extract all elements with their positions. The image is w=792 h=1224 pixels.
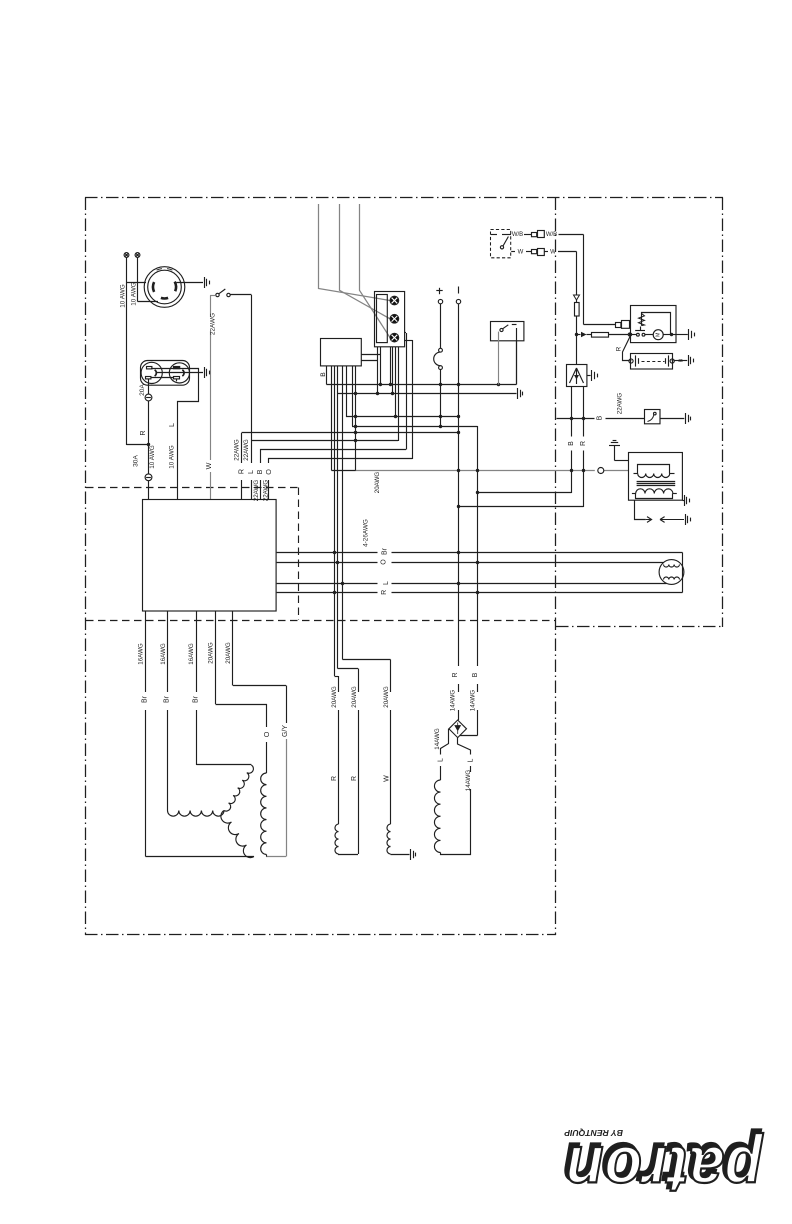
label 22AWG (relay line) [616, 393, 623, 415]
wire panel Br 1 [146, 611, 255, 857]
terminal block with 3 screw terminals [375, 292, 405, 347]
label L (bus) [383, 581, 390, 585]
circuit breaker 20A [145, 394, 152, 401]
ground (H2 end) [518, 388, 523, 399]
wire switch right down to panel L [230, 295, 251, 442]
spark plug gap arrows [646, 517, 684, 523]
engine switch box contacts [500, 325, 517, 332]
lamp winding coil [335, 824, 358, 854]
svg-text:10 AWG: 10 AWG [130, 282, 137, 306]
svg-text:M: M [656, 332, 662, 337]
wire panel G/Y lead [233, 611, 287, 857]
battery box [631, 354, 673, 370]
stator lead wire 3 (gray) [360, 204, 391, 338]
label L (left lead) [438, 758, 445, 762]
svg-text:L: L [167, 423, 176, 427]
label 10 AWG (terminal 1 wire) [120, 284, 127, 308]
label B (harness) [472, 672, 479, 677]
label R (harness) [452, 672, 459, 677]
svg-text:R: R [138, 430, 147, 435]
label W/B (left) [512, 232, 523, 238]
svg-text:22AWG: 22AWG [262, 480, 269, 502]
wire B to thermal relay [557, 417, 645, 420]
wire duplex neutral bottom slots [151, 377, 174, 379]
svg-text:16AWG: 16AWG [188, 643, 195, 665]
ground (twistlock) [205, 277, 210, 288]
label G/Y (stator lead) [282, 725, 289, 737]
wire block pin to L [398, 347, 400, 441]
wire coil HT to ground [683, 500, 685, 502]
connector (W/B wire) [532, 231, 545, 238]
battery cells symbol [629, 355, 674, 366]
svg-text:30A: 30A [133, 455, 140, 467]
svg-text:10 AWG: 10 AWG [169, 445, 176, 469]
label B (panel wire) [255, 469, 264, 474]
wire regulator pin3 down to lamp coil R return [338, 366, 359, 854]
wire from meter plug down into grid [440, 370, 442, 427]
svg-text:22AWG: 22AWG [233, 439, 240, 461]
ground (starter) [689, 329, 695, 340]
outer dash-dot enclosure borders and section divider [85, 198, 723, 936]
wire twistlock right slot to ground [177, 282, 204, 284]
svg-text:patron: patron [565, 1132, 764, 1207]
wire switch box gray lead [498, 332, 500, 385]
label R (hot wire) [138, 430, 147, 435]
duplex receptacle 20A [141, 361, 190, 386]
wire W/B from stop switch [502, 234, 531, 236]
aux winding vertical [261, 773, 267, 857]
label R (coil lead 1) [331, 776, 338, 781]
label B (regulator lead) [320, 372, 327, 377]
svg-text:20A: 20A [139, 384, 146, 396]
label 14AWG (coil return) [465, 770, 472, 792]
wire rectifier feed down [576, 335, 578, 365]
label 22AWG (switch wire) [209, 313, 216, 335]
connector (W wire) [532, 249, 545, 256]
svg-text:Br: Br [192, 695, 199, 703]
svg-text:4-26AWG: 4-26AWG [363, 519, 370, 547]
label 20AWG (W lead) [383, 686, 390, 708]
wire coil to spark gap [635, 500, 646, 519]
wire regulator pin7 down to O bus [354, 366, 357, 471]
label 10 AWG (breaker wire) [149, 445, 156, 469]
label O (panel wire) [264, 469, 273, 475]
wire diode bottom lead to DC coil return [458, 738, 471, 772]
svg-text:W/B: W/B [512, 232, 523, 238]
label 20AWG (R lead 1) [331, 686, 338, 708]
svg-text:20AWG: 20AWG [331, 686, 338, 708]
wire duplex hot loop [151, 369, 199, 500]
wire regulator pin5 to H3 [346, 366, 348, 417]
svg-text:Br: Br [382, 547, 389, 555]
bus junction dots [333, 551, 479, 594]
starter internal loop [642, 313, 671, 335]
ground (relay) [686, 413, 691, 424]
svg-text:14AWG: 14AWG [434, 728, 441, 750]
starter/solenoid box [631, 306, 677, 343]
rectifier box [567, 365, 587, 387]
wire W from stop switch [511, 251, 531, 253]
wire regulator pin6 to H4 [352, 366, 354, 426]
label L (duplex loop wire) [167, 423, 176, 427]
DC winding coil [434, 780, 470, 855]
wire terminal1 down to 30A feed [127, 257, 149, 445]
svg-text:L: L [438, 758, 445, 762]
wire duplex left slot down through breakers to panel [148, 379, 150, 500]
svg-text:22AWG: 22AWG [243, 439, 250, 461]
label W/B (right) [546, 232, 557, 238]
svg-text:BY RENTQUIP: BY RENTQUIP [564, 1128, 623, 1138]
svg-text:14AWG: 14AWG [465, 770, 472, 792]
svg-text:Br: Br [164, 695, 171, 703]
inner dashed box around control panel and generator divider [86, 488, 556, 621]
main winding diagonal up [224, 765, 253, 811]
wire junction to fuse to starter [577, 332, 632, 338]
wire O from panel [269, 459, 413, 500]
svg-text:22AWG: 22AWG [253, 480, 260, 502]
wire block pin to H1 [389, 347, 392, 387]
control panel box [143, 500, 277, 612]
label R (panel wire) [236, 469, 245, 474]
svg-text:W: W [204, 462, 213, 469]
bus wire O [277, 562, 664, 564]
DC positive terminal circle [438, 299, 442, 303]
twist-lock receptacle 30A 125V [144, 267, 185, 308]
svg-text:O: O [264, 469, 273, 475]
label 10 AWG (terminal 2 wire) [130, 282, 137, 306]
svg-text:W: W [518, 249, 524, 255]
resistor (charge) [575, 300, 580, 316]
svg-text:B: B [255, 469, 264, 474]
wire duplex ground slots to ground [156, 372, 203, 374]
wire switch box black lead [516, 328, 518, 385]
wire regulator pin1 to O bus [331, 366, 333, 471]
Patron by Rentquip logo (rotated 180) [562, 1128, 764, 1207]
bus wire L [277, 583, 667, 585]
svg-text:O: O [262, 731, 271, 737]
svg-text:B: B [596, 415, 603, 420]
svg-text:R: R [616, 346, 623, 351]
svg-text:20AWG: 20AWG [208, 642, 215, 664]
svg-text:Br: Br [142, 695, 149, 703]
label R (battery lead) [616, 346, 623, 351]
stator lead wire 2 (gray) [340, 204, 391, 319]
label Br (wire1) [142, 695, 149, 703]
bus wire Br [277, 553, 683, 593]
wire R from panel [242, 433, 459, 500]
label 20AWG (G/Y lead) [225, 642, 232, 664]
wire rectifier output B [478, 387, 572, 493]
svg-text:W: W [550, 249, 556, 255]
svg-text:16AWG: 16AWG [138, 643, 145, 665]
svg-text:G/Y: G/Y [282, 725, 289, 737]
label O (stator lead) [262, 731, 271, 737]
wire battery positive to solenoid [623, 335, 631, 361]
wire H4 to harness B [352, 426, 478, 736]
junction terminal1 feed joins breaker wire [147, 443, 150, 446]
ground (duplex receptacle) [205, 367, 210, 378]
solenoid plunger bar [635, 327, 645, 331]
wire B from panel [261, 450, 407, 500]
label R (rectifier lead) [580, 441, 587, 446]
wire block side pin to B [404, 333, 406, 450]
charge winding W coil [387, 824, 410, 854]
wire coil ground lead [615, 446, 629, 461]
svg-text:R: R [236, 469, 245, 474]
svg-text:O: O [380, 559, 387, 565]
label 4-26AWG [363, 519, 370, 547]
wire W/B to starter solenoid [559, 235, 616, 325]
svg-text:14AWG: 14AWG [469, 690, 476, 712]
label 20A [139, 384, 146, 396]
label 22AWG (O wire) [262, 480, 269, 502]
ground (battery) [689, 355, 694, 366]
svg-text:20AWG: 20AWG [225, 642, 232, 664]
wire switch left to W-gray line [210, 295, 216, 297]
starter wires and junctions [629, 333, 688, 336]
wire regulator harness a [361, 347, 382, 387]
wire from - terminal down (harness R) [458, 304, 460, 720]
label R (coil lead 2) [351, 776, 358, 781]
label Br (bus) [382, 547, 389, 555]
svg-text:20AWG: 20AWG [351, 686, 358, 708]
svg-text:22AWG: 22AWG [209, 313, 216, 335]
wire regulator pin2 down to lamp coil R lead [335, 366, 339, 824]
label 22AWG (R wire) [233, 439, 240, 461]
svg-text:W/B: W/B [546, 232, 557, 238]
label B (rectifier lead) [568, 441, 575, 446]
wire block pin to H3 [394, 347, 397, 419]
wire block pin to H2 [391, 347, 394, 396]
wire rectifier to ground [587, 375, 591, 377]
label O (bus) [380, 559, 387, 565]
label W (gray wire) [204, 462, 213, 469]
wire block side pin to O [404, 340, 412, 459]
terminal lug 1 [124, 253, 129, 258]
label Br (wire3) [192, 695, 199, 703]
wire regulator pin4 down to W coil lead [343, 366, 391, 824]
wire H3 [346, 416, 459, 418]
label 14AWG (R harness) [450, 690, 457, 712]
connector O circle [598, 468, 604, 474]
label 10 AWG (duplex loop) [169, 445, 176, 469]
label Br (wire2) [164, 695, 171, 703]
wire B harness to diode [460, 735, 478, 737]
svg-text:16AWG: 16AWG [160, 643, 167, 665]
wire L from panel [251, 441, 398, 500]
svg-text:B: B [472, 672, 479, 677]
terminal lug 2 [135, 253, 140, 258]
svg-text:R: R [580, 441, 587, 446]
label 20AWG (R lead 2) [351, 686, 358, 708]
svg-text:W: W [384, 775, 391, 782]
svg-text:10 AWG: 10 AWG [149, 445, 156, 469]
label 30A [133, 455, 140, 467]
fuse holder connector [616, 321, 630, 329]
label W (right) [550, 249, 556, 255]
label + (DC positive) [436, 288, 442, 294]
svg-text:L: L [468, 758, 475, 762]
label 20AWG (O lead) [208, 642, 215, 664]
meter plug circles and arc [434, 348, 443, 369]
label 16AWG (Br3) [188, 643, 195, 665]
engine switch box [491, 322, 524, 341]
main winding horizontal [168, 811, 225, 817]
wire regulator B lead [326, 366, 328, 385]
wire O gray bus [332, 470, 629, 472]
label 22AWG (B wire) [253, 480, 260, 502]
label 22AWG (L wire) [243, 439, 250, 461]
label 14AWG (left lead) [434, 728, 441, 750]
label 16AWG (Br1) [138, 643, 145, 665]
label W (left) [518, 249, 524, 255]
exciter rotor circle [659, 560, 684, 585]
wire resistor to junction [575, 316, 578, 336]
svg-text:B: B [568, 441, 575, 446]
ground (spark gap) [686, 514, 691, 525]
svg-text:B: B [320, 372, 327, 377]
label L (panel wire) [246, 470, 255, 474]
ground (coil secondary) [685, 495, 690, 506]
wire W to charge diode [545, 252, 577, 295]
wire rectifier output R [459, 387, 584, 507]
wire terminal2 down to receptacle bottom slot [138, 257, 159, 301]
svg-text:L: L [383, 581, 390, 585]
label - (DC negative) [458, 287, 460, 294]
voltage regulator box [321, 339, 362, 366]
label W (coil lead) [384, 775, 391, 782]
label B (relay line) [596, 415, 603, 420]
label R (bus) [381, 590, 388, 595]
wire battery negative to ground [674, 358, 687, 362]
label 20AWG (gray O bus) [374, 472, 381, 494]
wire panel Br 2 [167, 611, 169, 811]
starter motor M [653, 330, 663, 340]
svg-text:10 AWG: 10 AWG [120, 284, 127, 308]
svg-text:R: R [452, 672, 459, 677]
stator lead wire 1 (gray) [319, 204, 391, 301]
diode (charge) [574, 295, 580, 300]
svg-text:20AWG: 20AWG [383, 686, 390, 708]
wire from + terminal down to meter plug [440, 304, 442, 348]
thermal relay box [645, 410, 661, 424]
rectifier diode diamond [449, 720, 467, 738]
wire panel O lead [216, 611, 268, 773]
ground (W coil) [411, 849, 416, 860]
svg-text:20AWG: 20AWG [374, 472, 381, 494]
wire to twistlock left slot [127, 282, 147, 284]
grid junction dots [439, 383, 585, 508]
wire H2 to ground [338, 393, 517, 395]
wire H1 to engine switch [327, 341, 517, 385]
svg-text:R: R [381, 590, 388, 595]
label 14AWG (B harness) [469, 690, 476, 712]
wire panel Br 3 [197, 611, 252, 765]
wire diode left lead to DC coil [441, 729, 449, 780]
svg-text:R: R [351, 776, 358, 781]
svg-text:R: R [331, 776, 338, 781]
ignition coil transformer [629, 453, 683, 501]
main winding diagonal down [221, 811, 254, 858]
wire regulator harness b [361, 347, 379, 396]
label 16AWG (Br2) [160, 643, 167, 665]
wire 22AWG gray down from switch [210, 296, 212, 500]
wire relay to ground [660, 418, 684, 420]
engine stop switch dashed box [491, 230, 511, 258]
circuit breaker 30A [145, 474, 152, 481]
ground (ignition coil top) [609, 441, 620, 446]
bus wire R [277, 592, 683, 594]
solenoid resistor zigzag [639, 314, 645, 326]
svg-text:22AWG: 22AWG [616, 393, 623, 415]
engine stop switch contacts [491, 235, 508, 249]
solenoid contacts [637, 333, 645, 336]
svg-text:14AWG: 14AWG [450, 690, 457, 712]
label L (right lead) [468, 758, 475, 762]
ground (rectifier) [592, 370, 598, 381]
svg-text:L: L [246, 470, 255, 474]
panel switch [216, 289, 230, 297]
DC negative terminal circle [456, 299, 460, 303]
